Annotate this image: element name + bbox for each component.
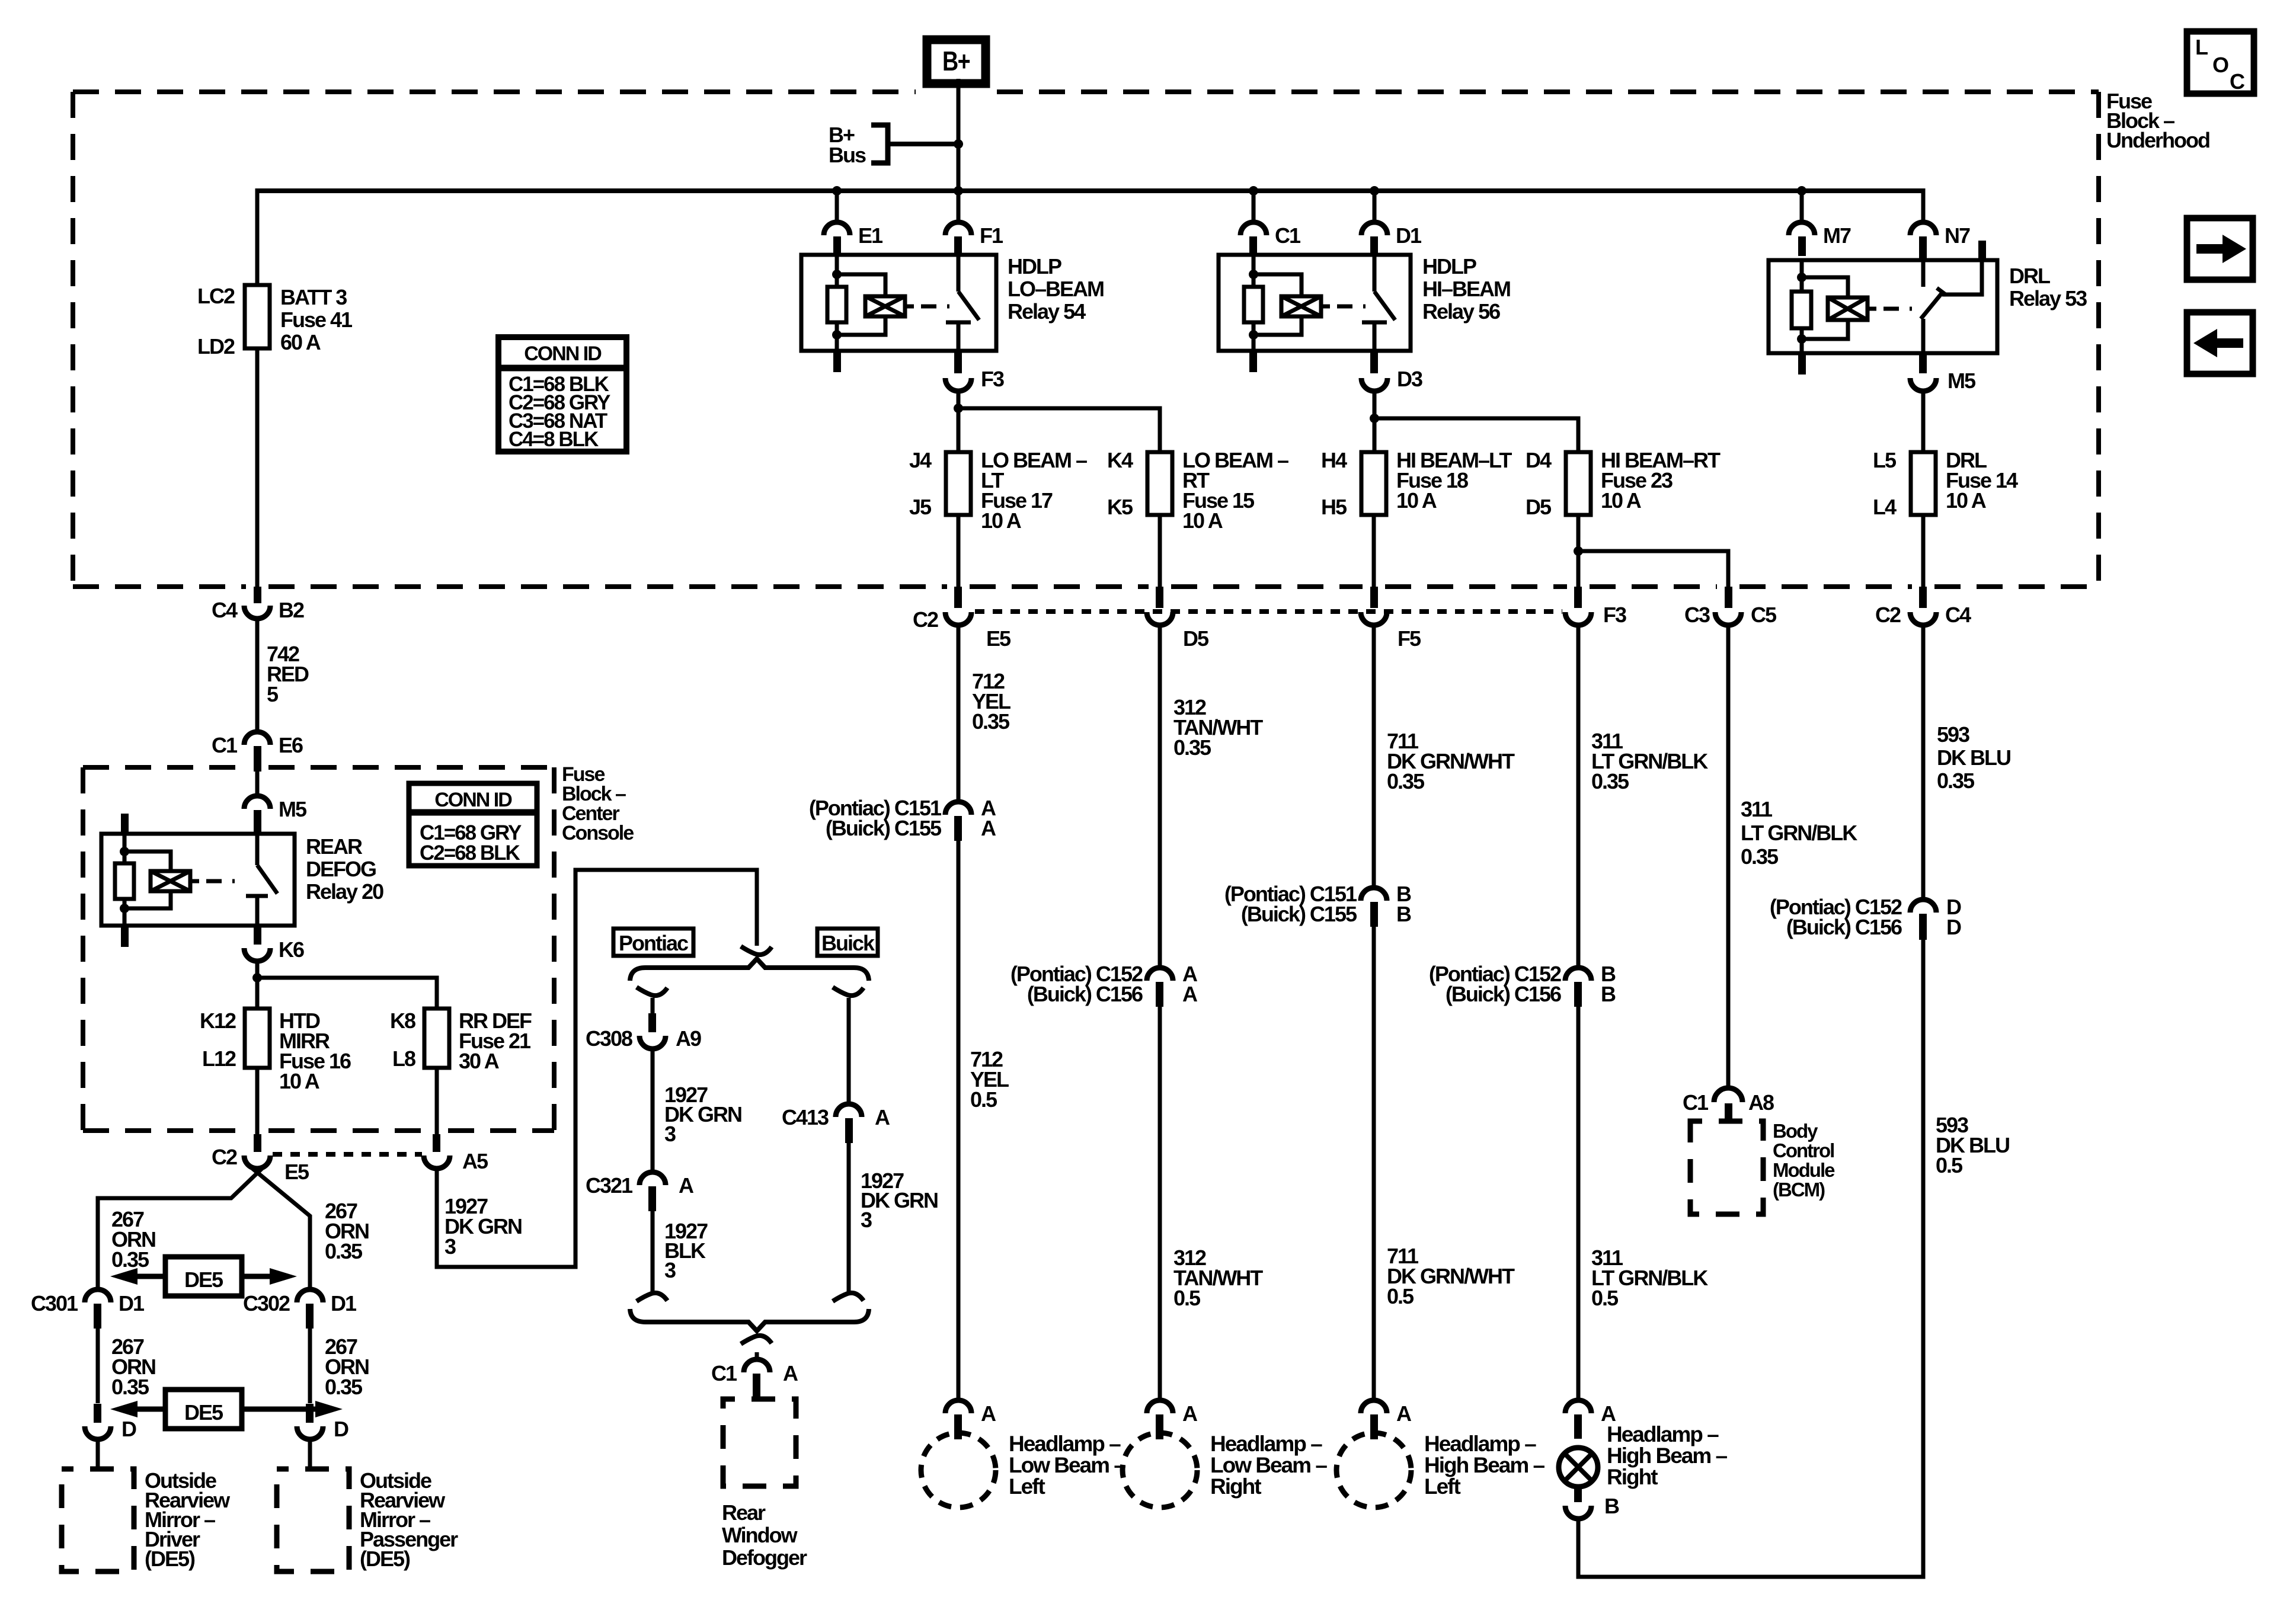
junction rail at C1 (1249, 186, 1258, 196)
svg-text:K5: K5 (1107, 495, 1133, 519)
svg-text:C: C (2230, 69, 2245, 94)
connector C1/A8 (1714, 1088, 1742, 1102)
svg-text:Console: Console (562, 822, 634, 844)
wire headlamp B return loop (1578, 940, 1923, 1577)
svg-text:311: 311 (1741, 797, 1773, 821)
wire break hook defogger (741, 1336, 772, 1344)
svg-text:0.35: 0.35 (1937, 769, 1975, 793)
connector E1 (835, 191, 839, 223)
svg-text:A: A (1182, 1401, 1198, 1426)
svg-text:Relay 56: Relay 56 (1422, 299, 1500, 324)
connector A headlamp high left (1361, 1400, 1387, 1413)
wire E5 splice left branch (98, 1169, 262, 1291)
wire 712 YEL 0.35 (957, 625, 961, 803)
rear window defogger dashed box (723, 1399, 796, 1486)
headlamp low beam right dashed circle (1123, 1433, 1197, 1507)
svg-text:Defogger: Defogger (722, 1545, 807, 1570)
svg-text:C308: C308 (586, 1026, 632, 1051)
fuse HI BEAM-LT Fuse 18 10A (1361, 452, 1386, 515)
connector D3 relay 56 output (1370, 351, 1378, 373)
connector C2/E5 console (254, 1134, 261, 1152)
svg-text:(Buick) C156: (Buick) C156 (1446, 982, 1561, 1006)
svg-text:C4: C4 (1945, 603, 1971, 627)
junction rail at M7 (1797, 186, 1806, 196)
connector M5 relay 53 output (1919, 353, 1927, 373)
svg-text:(Buick) C156: (Buick) C156 (1786, 915, 1902, 939)
relay 56 coil stub pin bottom (1249, 351, 1257, 372)
junction rail at E1 (832, 186, 842, 196)
svg-text:F3: F3 (981, 367, 1004, 391)
wire DRL fuse down to C4 (1921, 515, 1926, 588)
svg-text:E5: E5 (284, 1160, 309, 1184)
svg-text:0.35: 0.35 (325, 1375, 363, 1399)
fuse block center console dashed border top (83, 765, 246, 770)
svg-text:REAR: REAR (306, 834, 363, 859)
wire HTD MIRR fuse down (255, 1068, 260, 1135)
svg-text:(Buick) C155: (Buick) C155 (1241, 902, 1357, 926)
relay 53 coil-to-switch dashed link (1868, 307, 1876, 311)
svg-text:J5: J5 (909, 495, 932, 519)
wire from B+ box down to rail (957, 79, 961, 191)
connector F3 relay 54 output (954, 351, 962, 373)
svg-text:LC2: LC2 (197, 284, 235, 308)
svg-text:C1: C1 (212, 733, 238, 757)
svg-text:B2: B2 (279, 598, 304, 622)
brand option brace bottom (630, 1309, 869, 1331)
svg-text:(Buick) C155: (Buick) C155 (826, 816, 942, 840)
connector C152/C156 B/B (1565, 968, 1591, 981)
svg-text:0.5: 0.5 (1936, 1153, 1963, 1177)
svg-text:0.35: 0.35 (1173, 735, 1211, 760)
connector D1 (1373, 191, 1377, 223)
svg-text:Relay 20: Relay 20 (306, 879, 383, 904)
svg-text:Right: Right (1607, 1465, 1658, 1489)
relay 54 switch (957, 255, 961, 292)
svg-text:A: A (679, 1173, 694, 1198)
DE5 option box lower (165, 1390, 242, 1429)
svg-text:E5: E5 (986, 626, 1011, 651)
svg-text:L5: L5 (1873, 448, 1897, 472)
svg-text:C2: C2 (1875, 603, 1901, 627)
wire rail corner to N7 (1921, 188, 1926, 223)
fuse block underhood dashed border top-left segment (73, 89, 916, 94)
relay HDLP HI-BEAM Relay 56 box (1219, 255, 1411, 351)
relay 20 switch (255, 834, 260, 865)
relay 20 coil-to-switch dashed link (190, 879, 199, 884)
relay 56 switch (1373, 255, 1377, 292)
connector A headlamp high right (1565, 1400, 1591, 1413)
wire D to driver mirror (96, 1439, 100, 1469)
svg-text:593: 593 (1937, 722, 1969, 747)
connector C152/C156 A/A (1147, 968, 1173, 981)
svg-text:F5: F5 (1398, 626, 1421, 651)
svg-text:L8: L8 (392, 1046, 415, 1071)
underhood connector row dotted line (975, 609, 1562, 614)
fuse block underhood dashed border top-right segment (997, 89, 2099, 94)
wire RR DEF fuse down (435, 1068, 439, 1135)
svg-text:K6: K6 (279, 937, 304, 962)
relay 20 coil stub pin bottom (121, 926, 129, 947)
svg-text:CONN ID: CONN ID (524, 343, 602, 365)
svg-text:Control: Control (1773, 1140, 1834, 1161)
svg-text:0.35: 0.35 (1591, 769, 1629, 793)
svg-text:DK GRN: DK GRN (445, 1214, 522, 1238)
connector M7 (1800, 191, 1804, 223)
connector C1 relay56 (1252, 191, 1256, 223)
connector M5 rear defog relay input (244, 796, 270, 809)
svg-text:0.5: 0.5 (970, 1087, 997, 1112)
relay 53 switch (1921, 260, 1926, 287)
svg-text:0.5: 0.5 (1173, 1286, 1201, 1310)
wire D to passenger mirror (308, 1439, 312, 1469)
svg-text:Headlamp –: Headlamp – (1210, 1432, 1322, 1456)
svg-text:D5: D5 (1526, 495, 1552, 519)
connector C1/E6 (244, 732, 270, 745)
fuse BATT 3 Fuse 41 60A (245, 285, 270, 348)
relay 54 coil-to-switch dashed link (905, 305, 914, 309)
svg-text:L12: L12 (202, 1046, 236, 1071)
wire fuse 15 down to D5 (1158, 515, 1162, 588)
svg-text:B: B (1604, 1494, 1619, 1518)
svg-text:A: A (875, 1105, 890, 1129)
svg-text:F3: F3 (1603, 603, 1626, 627)
relay 53 coil stub pin bottom (1798, 353, 1806, 375)
wire brace to C1 (755, 1352, 759, 1360)
svg-text:C3: C3 (1684, 603, 1710, 627)
svg-text:C2: C2 (913, 607, 938, 632)
svg-text:Left: Left (1424, 1474, 1461, 1499)
wire fuse 17 down to E5 (957, 515, 961, 588)
svg-text:HDLP: HDLP (1422, 254, 1476, 279)
bulb headlamp high beam right (1559, 1448, 1598, 1487)
connector F5 underhood (1370, 587, 1378, 608)
svg-text:M5: M5 (1948, 369, 1976, 393)
junction B+ bus (954, 139, 963, 149)
svg-text:3: 3 (861, 1208, 872, 1232)
page arrow right box (2187, 218, 2253, 280)
svg-text:0.35: 0.35 (325, 1239, 363, 1263)
svg-text:C1: C1 (1275, 223, 1301, 248)
wire 742 RED 5 (255, 619, 260, 732)
svg-text:Headlamp –: Headlamp – (1424, 1432, 1536, 1456)
svg-text:D4: D4 (1526, 448, 1552, 472)
svg-text:B: B (1601, 982, 1616, 1006)
svg-text:D5: D5 (1183, 626, 1209, 651)
outside rearview mirror driver dashed box (62, 1469, 134, 1571)
svg-text:K12: K12 (200, 1009, 236, 1033)
wire B+ Bus tap (888, 142, 958, 146)
wire break hook above brand brace (741, 946, 772, 955)
relay 53 coil circuit (1800, 261, 1804, 292)
wire 1927 DK GRN 3 buick (847, 1143, 851, 1292)
connector C321/A (639, 1172, 666, 1185)
svg-text:Window: Window (722, 1523, 798, 1547)
svg-text:Headlamp –: Headlamp – (1009, 1432, 1121, 1456)
relay 20 coil stub pin top (121, 814, 129, 834)
svg-text:(Buick) C156: (Buick) C156 (1027, 982, 1143, 1006)
svg-text:Underhood: Underhood (2106, 128, 2209, 152)
wire 711 DK GRN/WHT 0.5 (1372, 927, 1376, 1401)
svg-text:O: O (2212, 53, 2228, 77)
wire rail down-leg to BATT 3 fuse (255, 188, 260, 285)
svg-text:A: A (1396, 1401, 1412, 1426)
fuse LO BEAM-RT Fuse 15 10A (1147, 452, 1172, 515)
relay REAR DEFOG Relay 20 box (101, 834, 295, 926)
wire 311 LT GRN/BLK 0.5 (1576, 1007, 1581, 1401)
Buick label box (817, 929, 878, 956)
wire BATT fuse to connector C4 (255, 348, 260, 588)
svg-text:10 A: 10 A (1601, 488, 1642, 513)
wire 312 TAN/WHT 0.5 (1158, 1007, 1162, 1401)
svg-text:A: A (981, 1401, 996, 1426)
svg-text:Body: Body (1773, 1120, 1818, 1142)
relay 56 coil-to-switch dashed link (1321, 305, 1330, 309)
connector A headlamp low right (1147, 1400, 1173, 1413)
svg-text:3: 3 (664, 1258, 676, 1282)
connector A headlamp low left (945, 1400, 971, 1413)
svg-text:A: A (981, 816, 996, 840)
wire 311 LT GRN/BLK 0.35 right (1576, 625, 1581, 969)
svg-text:3: 3 (445, 1234, 456, 1259)
wire D3 to high-beam fuses (1373, 391, 1377, 452)
svg-text:A5: A5 (462, 1149, 488, 1173)
wire break hook pontiac top (637, 987, 667, 996)
svg-text:C4=8 BLK: C4=8 BLK (509, 428, 599, 451)
wire F3 to low-beam fuses (957, 391, 961, 452)
svg-text:(BCM): (BCM) (1773, 1179, 1825, 1201)
svg-text:LO–BEAM: LO–BEAM (1008, 277, 1104, 301)
B+ Bus bracket symbol (871, 125, 888, 163)
headlamp low beam left dashed circle (921, 1433, 996, 1507)
svg-text:C302: C302 (243, 1291, 290, 1315)
svg-text:0.5: 0.5 (1591, 1286, 1619, 1310)
page arrow left box (2187, 312, 2253, 374)
svg-text:0.35: 0.35 (1387, 769, 1425, 793)
wire pontiac branch top (651, 998, 655, 1014)
svg-text:A: A (1182, 982, 1198, 1006)
svg-text:10 A: 10 A (279, 1069, 320, 1093)
wire C301 to D (96, 1329, 100, 1403)
svg-text:10 A: 10 A (1396, 488, 1437, 513)
svg-text:Relay 53: Relay 53 (2009, 286, 2087, 311)
relay 53 NC stub pin top (1978, 241, 1986, 260)
wire M5 to DRL fuse (1921, 391, 1926, 452)
fuse DRL Fuse 14 10A (1911, 452, 1936, 515)
wire break hook buick top (833, 987, 864, 996)
svg-text:Relay 54: Relay 54 (1008, 299, 1086, 324)
svg-text:Module: Module (1773, 1159, 1835, 1181)
wire 311 LT GRN/BLK 0.35 bcm branch (1726, 625, 1731, 1089)
connector C3/C5 underhood (1725, 587, 1732, 608)
svg-text:Fuse 41: Fuse 41 (280, 308, 353, 332)
connector K6 (254, 926, 261, 945)
svg-text:DE5: DE5 (184, 1400, 223, 1425)
connector D5 underhood (1156, 587, 1163, 608)
headlamp high beam left dashed circle (1336, 1433, 1411, 1507)
svg-text:A9: A9 (676, 1026, 701, 1051)
svg-text:0.35: 0.35 (111, 1375, 149, 1399)
console connector row dotted line (273, 1152, 422, 1157)
fuse HTD MIRR Fuse 16 10A (245, 1009, 270, 1068)
svg-text:D: D (1946, 915, 1961, 939)
wire 1927 DK GRN 3 pontiac (651, 1049, 655, 1173)
svg-text:H5: H5 (1321, 495, 1347, 519)
svg-text:DK GRN: DK GRN (861, 1188, 938, 1212)
connector C308/A9 (648, 1013, 656, 1032)
connector C2/C4 underhood (1919, 587, 1927, 608)
svg-text:L4: L4 (1873, 495, 1897, 519)
svg-text:D1: D1 (1396, 223, 1422, 248)
body control module dashed box (1690, 1121, 1763, 1214)
svg-text:0.5: 0.5 (1387, 1284, 1414, 1308)
wire 711 DK GRN/WHT 0.35 (1372, 625, 1376, 889)
svg-text:A8: A8 (1748, 1090, 1774, 1115)
svg-text:BATT 3: BATT 3 (280, 285, 347, 309)
svg-text:Low Beam –: Low Beam – (1210, 1453, 1327, 1477)
wire A5 to defogger branch (437, 870, 757, 1267)
svg-text:C1: C1 (1683, 1090, 1709, 1115)
svg-text:C1: C1 (711, 1361, 737, 1385)
DE5 option box upper (165, 1257, 242, 1296)
svg-text:E6: E6 (279, 733, 303, 757)
fuse block underhood dashed border right edge (2096, 92, 2101, 587)
svg-text:K8: K8 (390, 1009, 415, 1033)
svg-text:J4: J4 (909, 448, 932, 472)
connector C152/C156 D/D (1910, 900, 1936, 913)
relay 53 switch lower arm (1921, 319, 1926, 353)
svg-text:3: 3 (664, 1122, 676, 1146)
relay DRL Relay 53 box (1769, 260, 1997, 353)
B+ power symbol box (927, 40, 986, 84)
svg-text:0.35: 0.35 (972, 709, 1010, 734)
svg-text:C2=68 BLK: C2=68 BLK (420, 841, 520, 865)
svg-text:N7: N7 (1945, 223, 1970, 248)
svg-text:H4: H4 (1321, 448, 1347, 472)
svg-text:D1: D1 (119, 1291, 145, 1315)
wire 1927 BLK 3 (651, 1211, 655, 1292)
svg-text:C2: C2 (212, 1145, 237, 1169)
svg-text:Pontiac: Pontiac (619, 931, 688, 955)
outside rearview mirror passenger dashed box (277, 1469, 349, 1571)
fuse HI BEAM-RT Fuse 23 10A (1566, 452, 1591, 515)
svg-text:D: D (334, 1417, 348, 1441)
relay 56 coil circuit (1252, 256, 1256, 287)
wire 312 TAN/WHT 0.35 (1158, 625, 1162, 969)
svg-text:Rear: Rear (722, 1500, 766, 1525)
fuse block center console dashed border right edge (552, 767, 557, 1131)
wire main B+ rail (257, 188, 1923, 193)
svg-text:10 A: 10 A (981, 508, 1022, 533)
wire branch to RR DEF fuse (257, 978, 437, 1009)
svg-text:Bus: Bus (829, 143, 866, 167)
svg-text:Buick: Buick (821, 931, 875, 955)
fuse block center console dashed border bottom (83, 1128, 246, 1133)
wire 593 DK BLU 0.35 (1921, 625, 1926, 901)
svg-text:K4: K4 (1107, 448, 1133, 472)
relay HDLP LO-BEAM Relay 54 box (801, 255, 996, 351)
svg-text:DRL: DRL (2009, 264, 2050, 288)
svg-text:Low Beam –: Low Beam – (1009, 1453, 1125, 1477)
wire E5 splice right branch (252, 1169, 310, 1291)
svg-text:Headlamp –: Headlamp – (1607, 1422, 1719, 1446)
svg-text:HDLP: HDLP (1008, 254, 1061, 279)
svg-text:60 A: 60 A (280, 330, 321, 354)
relay 54 coil stub pin bottom (833, 351, 841, 372)
connector B headlamp high right (1574, 1487, 1582, 1502)
connector C302/D1 (297, 1289, 323, 1302)
svg-text:M7: M7 (1823, 223, 1851, 248)
svg-text:LT GRN/BLK: LT GRN/BLK (1741, 821, 1857, 845)
svg-text:CONN ID: CONN ID (434, 789, 512, 811)
relay 54 coil circuit (835, 256, 839, 287)
svg-text:D3: D3 (1397, 367, 1422, 391)
connector D driver mirror (94, 1404, 101, 1423)
svg-text:DEFOG: DEFOG (306, 857, 376, 881)
svg-text:High Beam –: High Beam – (1424, 1453, 1545, 1477)
svg-text:HI–BEAM: HI–BEAM (1422, 277, 1510, 301)
svg-text:DK GRN: DK GRN (664, 1102, 741, 1126)
wire buick branch top (847, 998, 851, 1105)
svg-text:Right: Right (1210, 1474, 1261, 1499)
svg-text:D: D (121, 1417, 136, 1441)
fuse LO BEAM-LT Fuse 17 10A (946, 452, 971, 515)
svg-text:DE5: DE5 (184, 1267, 223, 1292)
junction rail at D1 (1370, 186, 1379, 196)
svg-text:0.35: 0.35 (111, 1247, 149, 1272)
connector N7 (1910, 222, 1936, 235)
connector F3 underhood (1574, 587, 1582, 608)
relay 20 coil circuit (123, 834, 127, 863)
svg-text:High Beam –: High Beam – (1607, 1443, 1728, 1468)
fuse block center console dashed border left edge (81, 767, 85, 1131)
Pontiac label box (613, 929, 693, 956)
wire break hook buick bottom (833, 1293, 864, 1301)
svg-text:10 A: 10 A (1946, 488, 1987, 513)
svg-text:DK BLU: DK BLU (1937, 745, 2010, 770)
svg-text:5: 5 (267, 682, 279, 706)
connector C1/A defogger (744, 1359, 770, 1372)
CONN ID table center console (409, 783, 537, 866)
svg-text:F1: F1 (980, 223, 1003, 248)
fuse block underhood dashed border left edge (71, 92, 75, 587)
wire fuse 18 down to F5 (1372, 515, 1376, 588)
svg-text:(DE5): (DE5) (360, 1547, 410, 1571)
wire K6 to fuses (255, 961, 260, 1009)
svg-text:C301: C301 (31, 1291, 78, 1315)
connector F1 (957, 191, 961, 223)
junction rail at F1 (954, 186, 963, 196)
wire fuse 23 down to F3 and C5 branch (1576, 515, 1581, 588)
wire break hook pontiac bottom (637, 1293, 667, 1301)
fuse block underhood dashed border bottom edge (73, 584, 246, 589)
svg-text:Left: Left (1009, 1474, 1045, 1499)
connector C151/C155 A/A (945, 802, 971, 815)
svg-text:LD2: LD2 (197, 334, 235, 359)
brand option brace top (630, 959, 869, 981)
wire C302 to D (308, 1329, 312, 1403)
svg-text:B+: B+ (942, 46, 970, 76)
svg-text:C5: C5 (1751, 603, 1777, 627)
svg-text:(DE5): (DE5) (145, 1547, 195, 1571)
svg-text:C413: C413 (782, 1105, 829, 1129)
svg-text:30 A: 30 A (459, 1049, 500, 1073)
connector A5 console (433, 1134, 440, 1152)
svg-text:B: B (1396, 902, 1411, 926)
connector C301/D1 (85, 1289, 111, 1302)
connector D passenger mirror (306, 1404, 314, 1423)
svg-text:M5: M5 (279, 797, 307, 821)
svg-text:E1: E1 (858, 223, 883, 248)
